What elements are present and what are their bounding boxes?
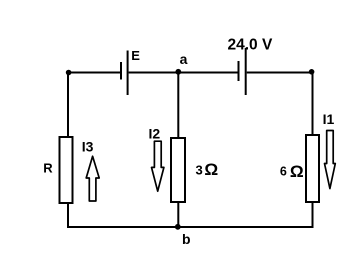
- resistor 6 ohm: [306, 135, 319, 202]
- battery E short plate: [120, 62, 122, 80]
- svg-text:R: R: [43, 160, 53, 175]
- svg-text:I1: I1: [323, 111, 335, 127]
- arrow I3 (up): [86, 156, 99, 201]
- svg-text:I3: I3: [82, 138, 94, 154]
- battery E long plate: [127, 51, 129, 96]
- battery V short plate: [238, 61, 240, 81]
- svg-text:a: a: [180, 51, 188, 67]
- wire middle branch upper: [177, 72, 179, 139]
- svg-text:Ω: Ω: [290, 163, 304, 181]
- svg-text:I2: I2: [149, 125, 161, 141]
- wire bottom horizontal: [67, 226, 314, 228]
- resistor R: [60, 137, 73, 203]
- wire left branch lower: [67, 203, 69, 228]
- node a: [175, 69, 181, 75]
- svg-text:b: b: [182, 231, 191, 247]
- junction top-right: [309, 69, 315, 75]
- svg-text:24.0 V: 24.0 V: [228, 37, 273, 54]
- wire right branch upper: [312, 72, 314, 136]
- arrow I1 (down): [325, 131, 336, 189]
- resistor 3 ohm: [171, 138, 185, 202]
- junction top-left: [66, 70, 72, 76]
- arrow I2 (down): [152, 141, 164, 191]
- svg-text:6: 6: [280, 165, 287, 179]
- wire left branch upper: [67, 72, 69, 138]
- svg-text:3: 3: [196, 162, 203, 177]
- wire middle branch lower: [177, 202, 179, 227]
- svg-text:Ω: Ω: [204, 161, 218, 179]
- battery V long plate: [245, 48, 247, 95]
- node b: [175, 224, 181, 230]
- svg-text:E: E: [131, 48, 140, 63]
- wire top-left horizontal: [67, 72, 120, 74]
- wire top-middle horizontal: [129, 72, 238, 74]
- wire right branch lower: [312, 202, 314, 228]
- wire top-right horizontal: [247, 72, 314, 74]
